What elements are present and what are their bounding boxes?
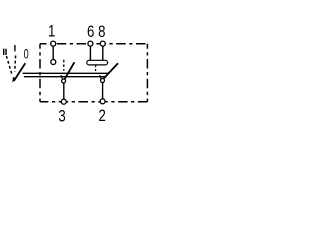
enclosure border top (dash-dot) xyxy=(40,43,147,45)
mechanical bar (double line) xyxy=(23,73,110,76)
enclosure border right (dash-dot) xyxy=(146,44,148,102)
terminal 1 circle xyxy=(51,41,56,46)
actuator lever (solid, position 0) xyxy=(14,63,25,81)
label position II xyxy=(4,49,6,55)
contact K2 lever (moving blade) xyxy=(104,63,118,78)
wire: terminal 3 stem xyxy=(63,83,65,100)
wire: terminal 1 stem xyxy=(52,45,54,59)
svg-text:8: 8 xyxy=(98,23,105,42)
bridging contact bar (terminals 6-8) xyxy=(87,60,108,65)
svg-text:3: 3 xyxy=(58,107,65,126)
svg-text:6: 6 xyxy=(87,23,94,42)
contact K1 lever (moving blade) xyxy=(65,62,75,79)
svg-text:2: 2 xyxy=(98,106,105,125)
contact K1 pivot circle xyxy=(62,79,66,83)
svg-text:1: 1 xyxy=(48,22,55,41)
wire: terminal 2 stem xyxy=(102,82,104,99)
contact K2 spring stub xyxy=(100,75,101,78)
bridge mechanical link (dashed) xyxy=(95,65,97,72)
label position I xyxy=(14,45,16,51)
wire: terminal 6 stem xyxy=(89,45,91,60)
contact K1 spring stub xyxy=(61,75,62,79)
actuator position II (dashed) xyxy=(6,56,12,76)
terminal 3 circle xyxy=(61,99,66,104)
terminal 6 circle xyxy=(88,41,93,46)
actuator position I (dashed) xyxy=(14,56,17,72)
contact K2 pivot circle xyxy=(101,79,105,83)
wire: terminal 8 stem xyxy=(102,45,104,60)
terminal 8 circle xyxy=(100,41,105,46)
enclosure border bottom (dash-dot) xyxy=(40,101,147,103)
actuator arrowhead xyxy=(12,77,16,83)
svg-text:0: 0 xyxy=(24,46,29,61)
contact K1 alternate position (dashed) xyxy=(63,60,65,71)
contact K1 fixed contact (circle) xyxy=(51,60,56,65)
enclosure border left (dash-dot) xyxy=(39,44,41,102)
terminal 2 circle xyxy=(100,99,105,104)
